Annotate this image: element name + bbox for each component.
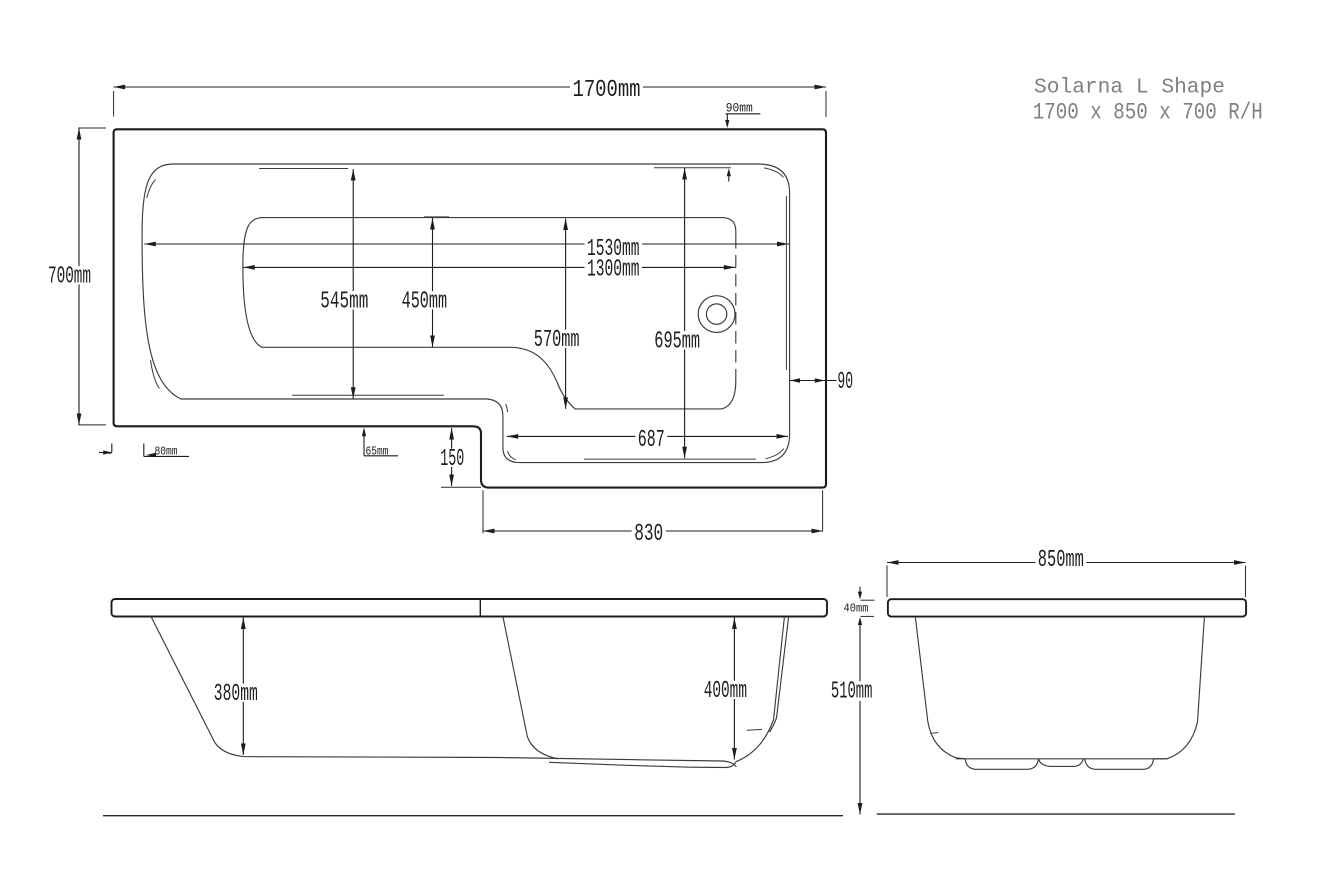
svg-text:570mm: 570mm: [534, 327, 580, 354]
svg-text:830: 830: [634, 521, 663, 548]
svg-text:1700 x 850 x 700 R/H: 1700 x 850 x 700 R/H: [1033, 100, 1263, 126]
svg-text:687: 687: [638, 427, 665, 454]
svg-text:65mm: 65mm: [366, 446, 389, 459]
svg-text:80mm: 80mm: [155, 446, 178, 459]
svg-text:150: 150: [440, 446, 464, 473]
svg-text:850mm: 850mm: [1038, 547, 1084, 574]
svg-text:510mm: 510mm: [831, 679, 873, 706]
svg-text:695mm: 695mm: [654, 329, 700, 356]
svg-text:700mm: 700mm: [48, 264, 91, 291]
svg-text:90: 90: [837, 369, 853, 396]
svg-text:40mm: 40mm: [844, 603, 869, 616]
svg-text:450mm: 450mm: [402, 289, 448, 316]
svg-text:380mm: 380mm: [214, 681, 258, 708]
svg-text:545mm: 545mm: [320, 289, 368, 316]
svg-text:Solarna L Shape: Solarna L Shape: [1034, 77, 1225, 100]
svg-text:1300mm: 1300mm: [587, 256, 640, 283]
svg-text:1700mm: 1700mm: [573, 77, 641, 104]
svg-text:400mm: 400mm: [704, 678, 747, 705]
